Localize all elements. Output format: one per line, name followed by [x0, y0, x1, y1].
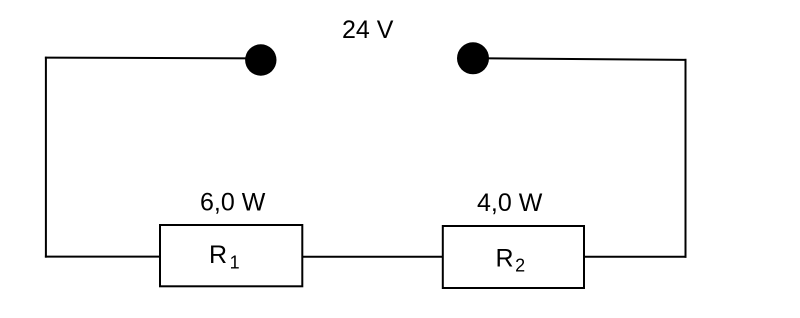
resistor R1 body: [160, 225, 302, 286]
svg-text:6,0 W: 6,0 W: [200, 189, 266, 217]
svg-text:4,0 W: 4,0 W: [477, 189, 543, 217]
wire: left vertical segment: [45, 57, 47, 258]
wire: segment between R1 and R2: [302, 256, 444, 258]
node: left battery terminal dot: [245, 44, 276, 75]
node: right battery terminal dot: [457, 42, 489, 74]
svg-text:24 V: 24 V: [342, 16, 394, 44]
resistor R2 body: [443, 226, 584, 288]
wire: bottom-left horizontal segment: [45, 256, 161, 258]
wire: right vertical segment: [685, 59, 687, 258]
wire: top-right horizontal segment: [478, 58, 687, 60]
wire: bottom-right horizontal segment: [584, 256, 687, 258]
wire: top-left horizontal segment: [45, 57, 256, 60]
